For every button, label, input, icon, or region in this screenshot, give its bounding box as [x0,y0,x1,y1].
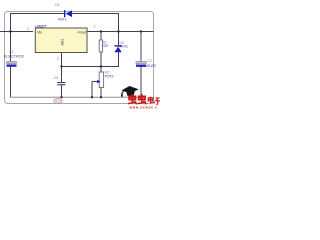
svg-text:220: 220 [102,44,108,48]
svg-text:LM317T: LM317T [35,24,47,28]
svg-text:4001: 4001 [58,17,67,21]
svg-text:1: 1 [27,27,29,31]
svg-text:2: 2 [94,25,96,29]
svg-text:Vin: Vin [37,31,42,35]
svg-text:ELECTRO2: ELECTRO2 [4,55,24,59]
svg-text:www.newoc.c: www.newoc.c [129,106,158,110]
svg-text:+Vout: +Vout [77,31,86,35]
svg-text:POT2: POT2 [105,75,114,79]
svg-text:ELEC: ELEC [147,64,156,68]
svg-text:3: 3 [57,56,59,60]
svg-text:4001: 4001 [119,44,128,48]
svg-text:C1: C1 [9,50,13,54]
svg-text:ADJ: ADJ [60,39,64,46]
svg-text:C3: C3 [54,76,58,80]
svg-text:C2: C2 [147,59,151,63]
svg-text:D1: D1 [55,3,59,7]
